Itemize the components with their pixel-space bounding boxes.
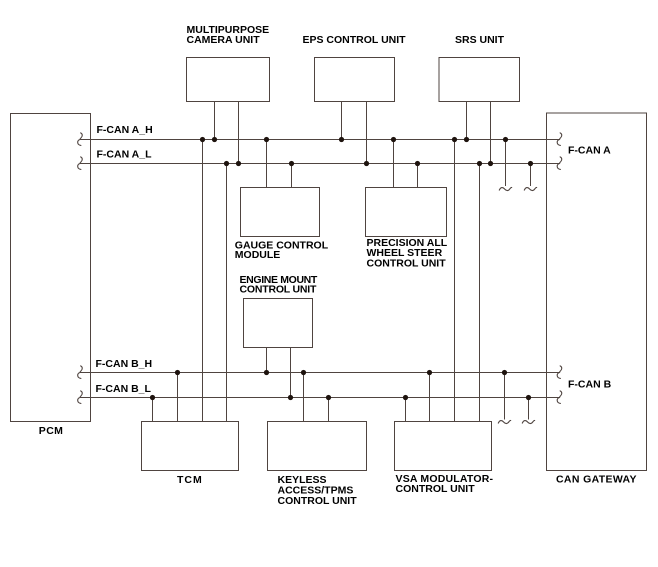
junction gauge on A_L xyxy=(289,161,294,166)
wire camera pin1 to A_H xyxy=(214,102,216,140)
CAN GATEWAY box xyxy=(547,113,647,471)
bus F-CAN B_L xyxy=(80,397,560,399)
junction camera on A_H xyxy=(212,137,217,142)
terminator squiggle A_H xyxy=(499,187,511,190)
junction terminator on A_H xyxy=(503,137,508,142)
wire A_L to precision pin2 xyxy=(417,164,419,188)
svg-text:CAN GATEWAY: CAN GATEWAY xyxy=(556,474,637,486)
wire B_H to keyless pin1 xyxy=(303,373,305,422)
wire engine pin1 to B_H xyxy=(266,348,268,373)
wire A_H to TCM pin3 xyxy=(202,140,204,422)
junction TCM on B_H xyxy=(175,370,180,375)
wire B_L terminator stub xyxy=(528,398,530,420)
wire A_L to gauge pin2 xyxy=(291,164,293,188)
junction engine on B_L xyxy=(288,395,293,400)
EPS CONTROL UNIT box xyxy=(315,58,395,102)
break symbol PCM B_H xyxy=(78,366,83,379)
terminator squiggle B_H xyxy=(498,420,510,423)
svg-text:CONTROL UNIT: CONTROL UNIT xyxy=(278,495,358,507)
svg-text:EPS CONTROL UNIT: EPS CONTROL UNIT xyxy=(303,34,407,46)
svg-text:CONTROL UNIT: CONTROL UNIT xyxy=(396,483,476,495)
svg-text:CAMERA UNIT: CAMERA UNIT xyxy=(187,34,261,46)
junction VSA on A_L xyxy=(477,161,482,166)
junction TCM on A_H xyxy=(200,137,205,142)
wire A_H to precision pin1 xyxy=(393,140,395,188)
wire B_L to VSA pin1 xyxy=(405,398,407,422)
junction SRS on A_H xyxy=(464,137,469,142)
junction precision on A_L xyxy=(415,161,420,166)
wire camera pin2 to A_L xyxy=(238,102,240,164)
svg-text:F-CAN B: F-CAN B xyxy=(568,379,612,391)
SRS UNIT box xyxy=(439,58,520,102)
wire A_L terminator stub xyxy=(530,164,532,187)
terminator squiggle B_L xyxy=(522,420,534,423)
junction VSA on A_H xyxy=(452,137,457,142)
PRECISION ALL WHEEL STEER CONTROL UNIT box xyxy=(366,188,447,237)
junction VSA on B_L xyxy=(403,395,408,400)
wire B_H to VSA pin2 xyxy=(429,373,431,422)
svg-text:MODULE: MODULE xyxy=(235,249,280,261)
MULTIPURPOSE CAMERA UNIT box xyxy=(187,58,270,102)
svg-text:SRS UNIT: SRS UNIT xyxy=(455,34,505,46)
bus F-CAN B_H xyxy=(80,372,560,374)
wire B_H to TCM pin2 xyxy=(177,373,179,422)
junction VSA on B_H xyxy=(427,370,432,375)
wire SRS pin1 to A_H xyxy=(466,102,468,140)
wire EPS pin1 to A_H xyxy=(341,102,343,140)
junction terminator on B_L xyxy=(526,395,531,400)
junction terminator on A_L xyxy=(528,161,533,166)
junction TCM on B_L xyxy=(150,395,155,400)
junction SRS on A_L xyxy=(488,161,493,166)
ENGINE MOUNT CONTROL UNIT box xyxy=(244,299,313,348)
terminator squiggle A_L xyxy=(524,187,536,190)
svg-text:CONTROL UNIT: CONTROL UNIT xyxy=(367,257,447,269)
wire engine pin2 to B_L xyxy=(290,348,292,398)
break symbol PCM B_L xyxy=(78,391,83,404)
wire A_H terminator stub xyxy=(505,140,507,187)
wire B_L to TCM pin1 xyxy=(152,398,154,422)
GAUGE CONTROL MODULE box xyxy=(241,188,320,237)
junction gauge on A_H xyxy=(264,137,269,142)
junction EPS on A_L xyxy=(364,161,369,166)
svg-text:F-CAN B_L: F-CAN B_L xyxy=(96,383,152,395)
break symbol gateway B_H xyxy=(557,366,562,379)
junction TCM on A_L xyxy=(224,161,229,166)
PCM box xyxy=(11,114,91,422)
svg-text:F-CAN B_H: F-CAN B_H xyxy=(96,358,153,370)
break symbol gateway A_H xyxy=(557,133,562,146)
break symbol PCM A_H xyxy=(78,133,83,146)
wire B_H terminator stub xyxy=(504,373,506,420)
junction engine on B_H xyxy=(264,370,269,375)
junction terminator on B_H xyxy=(502,370,507,375)
junction camera on A_L xyxy=(236,161,241,166)
bus F-CAN A_H xyxy=(80,139,560,141)
wire A_L to TCM pin4 xyxy=(226,164,228,422)
svg-text:F-CAN A: F-CAN A xyxy=(568,145,611,157)
wire B_L to keyless pin2 xyxy=(328,398,330,422)
svg-text:F-CAN A_L: F-CAN A_L xyxy=(97,149,153,161)
break symbol gateway A_L xyxy=(557,157,562,170)
junction precision on A_H xyxy=(391,137,396,142)
junction keyless on B_L xyxy=(326,395,331,400)
wire EPS pin2 to A_L xyxy=(366,102,368,164)
VSA MODULATOR-CONTROL UNIT box xyxy=(395,422,492,471)
bus F-CAN A_L xyxy=(80,163,560,165)
svg-text:TCM: TCM xyxy=(177,474,203,486)
svg-text:PCM: PCM xyxy=(39,425,64,437)
svg-text:CONTROL UNIT: CONTROL UNIT xyxy=(240,284,318,296)
wire A_L to VSA pin4 xyxy=(479,164,481,422)
break symbol gateway B_L xyxy=(557,391,562,404)
wire SRS pin2 to A_L xyxy=(490,102,492,164)
junction EPS on A_H xyxy=(339,137,344,142)
wire A_H to VSA pin3 xyxy=(454,140,456,422)
break symbol PCM A_L xyxy=(78,157,83,170)
svg-text:F-CAN A_H: F-CAN A_H xyxy=(97,124,153,136)
KEYLESS ACCESS/TPMS CONTROL UNIT box xyxy=(268,422,367,471)
TCM box xyxy=(142,422,239,471)
junction keyless on B_H xyxy=(301,370,306,375)
wire A_H to gauge pin1 xyxy=(266,140,268,188)
